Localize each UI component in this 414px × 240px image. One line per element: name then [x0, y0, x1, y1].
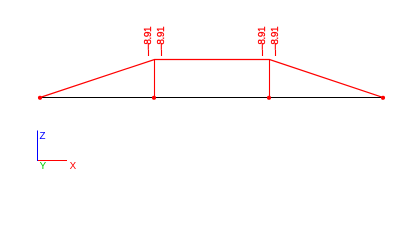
- svg-text:Y: Y: [40, 161, 47, 172]
- svg-text:–8.91: –8.91: [156, 26, 167, 50]
- svg-text:–8.91: –8.91: [143, 26, 154, 50]
- svg-text:X: X: [70, 161, 77, 172]
- svg-text:–8.91: –8.91: [257, 26, 268, 50]
- svg-text:Z: Z: [40, 131, 46, 142]
- svg-text:–8.91: –8.91: [270, 26, 281, 50]
